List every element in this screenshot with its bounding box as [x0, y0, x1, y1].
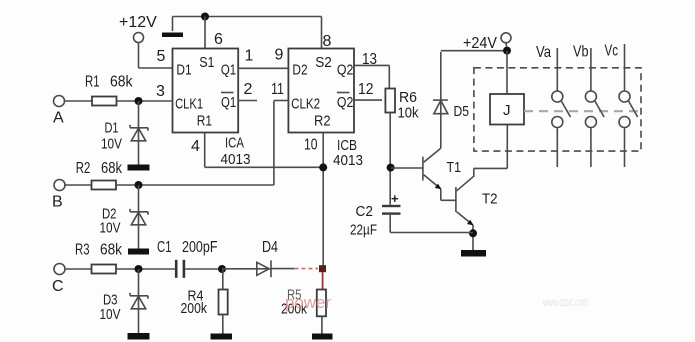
- svg-text:C: C: [52, 278, 64, 295]
- svg-text:10: 10: [304, 137, 318, 154]
- svg-text:www.dzsc.com: www.dzsc.com: [542, 295, 588, 309]
- svg-text:C2: C2: [356, 203, 374, 220]
- svg-text:10V: 10V: [100, 220, 121, 237]
- svg-text:T1: T1: [447, 159, 462, 176]
- svg-text:68k: 68k: [100, 242, 123, 259]
- svg-text:Q1: Q1: [221, 62, 236, 79]
- svg-text:D1: D1: [176, 62, 191, 79]
- svg-text:D1: D1: [105, 119, 119, 136]
- svg-text:J: J: [503, 102, 511, 119]
- svg-text:5: 5: [157, 48, 166, 65]
- svg-text:B: B: [52, 194, 63, 211]
- svg-text:R2: R2: [76, 160, 91, 177]
- svg-text:200pF: 200pF: [182, 239, 218, 256]
- svg-text:C1: C1: [157, 239, 172, 256]
- svg-text:CLK2: CLK2: [291, 96, 320, 113]
- svg-text:D4: D4: [262, 239, 278, 256]
- svg-text:+12V: +12V: [119, 14, 157, 31]
- svg-text:2: 2: [244, 81, 253, 98]
- svg-text:68k: 68k: [101, 160, 123, 177]
- svg-text:12: 12: [358, 81, 374, 98]
- svg-text:S2: S2: [315, 54, 332, 71]
- svg-text:Vb: Vb: [573, 44, 589, 61]
- svg-text:13: 13: [362, 51, 377, 68]
- svg-text:Q2: Q2: [337, 94, 354, 111]
- svg-text:4013: 4013: [333, 152, 363, 169]
- svg-text:+: +: [391, 191, 399, 206]
- svg-text:10k: 10k: [398, 105, 419, 122]
- svg-text:A: A: [53, 110, 64, 127]
- svg-text:10V: 10V: [101, 135, 122, 152]
- svg-text:power: power: [285, 294, 332, 312]
- svg-text:ICA: ICA: [225, 135, 244, 152]
- svg-text:10V: 10V: [100, 306, 121, 323]
- svg-text:9: 9: [275, 47, 284, 64]
- svg-text:R1: R1: [197, 113, 212, 130]
- svg-text:D2: D2: [292, 62, 307, 79]
- svg-text:Q2: Q2: [337, 62, 354, 79]
- svg-text:CLK1: CLK1: [175, 96, 203, 113]
- svg-text:4013: 4013: [221, 151, 251, 168]
- svg-text:200k: 200k: [181, 300, 208, 317]
- svg-text:4: 4: [191, 138, 200, 155]
- svg-text:Q1: Q1: [221, 94, 236, 111]
- svg-text:Vc: Vc: [605, 43, 619, 60]
- svg-text:3: 3: [156, 83, 165, 100]
- svg-text:R3: R3: [75, 242, 90, 259]
- svg-text:+24V: +24V: [463, 35, 497, 52]
- svg-text:R2: R2: [314, 113, 331, 130]
- svg-text:R6: R6: [399, 89, 417, 106]
- svg-text:D5: D5: [454, 103, 470, 120]
- svg-text:Va: Va: [536, 44, 551, 61]
- svg-text:R1: R1: [85, 74, 100, 91]
- svg-text:8: 8: [323, 33, 332, 50]
- svg-text:6: 6: [214, 31, 223, 48]
- svg-text:68k: 68k: [110, 74, 133, 91]
- svg-text:22µF: 22µF: [350, 222, 377, 239]
- svg-text:S1: S1: [199, 54, 214, 71]
- svg-text:1: 1: [245, 48, 254, 65]
- svg-text:11: 11: [271, 81, 284, 98]
- svg-text:T2: T2: [482, 191, 498, 208]
